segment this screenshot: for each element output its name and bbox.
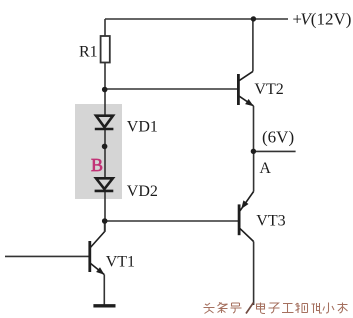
VT1 base bar — [88, 241, 91, 272]
VT1 emitter arrow — [96, 267, 104, 275]
watermark 头条号/电子工程师小李 — [204, 303, 348, 314]
VT1 emitter lead — [91, 263, 105, 274]
svg-text:VT1: VT1 — [106, 254, 135, 271]
junction node A — [251, 149, 256, 154]
transistor VT2 (NPN) — [238, 71, 253, 106]
wire VT2 emitter down to node A — [253, 106, 255, 151]
VT3 base bar — [238, 204, 241, 235]
ground — [93, 304, 115, 307]
wire node3 to VT3 base — [105, 220, 238, 222]
wire rail down to R1 — [104, 19, 106, 36]
VD1 anode triangle — [96, 116, 113, 128]
svg-text:VD2: VD2 — [127, 183, 158, 200]
svg-text:B: B — [91, 155, 103, 175]
junction node1 (R1/VT2 base) — [102, 87, 108, 93]
wire top supply rail — [105, 18, 288, 20]
wire node A stub right — [253, 150, 295, 152]
diode VD2 — [95, 178, 114, 191]
VT2 base bar — [237, 74, 240, 105]
svg-text:A: A — [259, 160, 271, 177]
junction top rail — [251, 16, 256, 21]
VT2 emitter arrow — [245, 99, 254, 106]
junction node B — [102, 144, 108, 150]
VT1 collector lead — [91, 232, 105, 248]
VD2 anode triangle — [96, 178, 113, 189]
VD1 cathode bar — [95, 128, 114, 131]
VT2 collector lead — [239, 71, 253, 80]
svg-text:VD1: VD1 — [127, 118, 158, 135]
VT3 collector lead — [240, 229, 254, 242]
wire VT1 collector up to node3 — [104, 221, 106, 232]
wire VD2 cathode down to node3 — [104, 191, 106, 232]
wire VT1 base lead — [5, 255, 89, 257]
svg-text:VT2: VT2 — [254, 81, 283, 98]
VD2 cathode bar — [95, 190, 114, 193]
wire VT2 collector to rail — [252, 19, 254, 71]
wire R1 bottom to VD1 — [104, 63, 106, 117]
svg-text:R1: R1 — [79, 44, 98, 61]
transistor VT1 (NPN) — [90, 232, 105, 275]
VT3 emitter lead — [240, 192, 254, 211]
resistor R1 — [101, 36, 110, 63]
wire VT1 emitter down to ground — [103, 275, 105, 305]
svg-text:VT3: VT3 — [256, 213, 285, 230]
transistor VT3 (PNP) — [239, 192, 254, 242]
wire VT3 collector down — [253, 242, 255, 306]
junction node3 (VD2/VT1/VT3 base) — [102, 218, 108, 224]
VT3 emitter arrow (points toward bar) — [241, 200, 248, 209]
diode VD1 — [95, 116, 114, 129]
shaded region around VD1/VD2 — [75, 104, 122, 199]
wire VD1 cathode to VD2 anode — [104, 129, 106, 179]
svg-text:(6V): (6V) — [262, 127, 294, 146]
wire VT3 emitter up to node A — [253, 151, 255, 191]
svg-text:+V(12V): +V(12V) — [292, 9, 351, 28]
VT2 emitter lead — [239, 96, 253, 106]
wire node1 to VT2 base — [105, 88, 237, 90]
